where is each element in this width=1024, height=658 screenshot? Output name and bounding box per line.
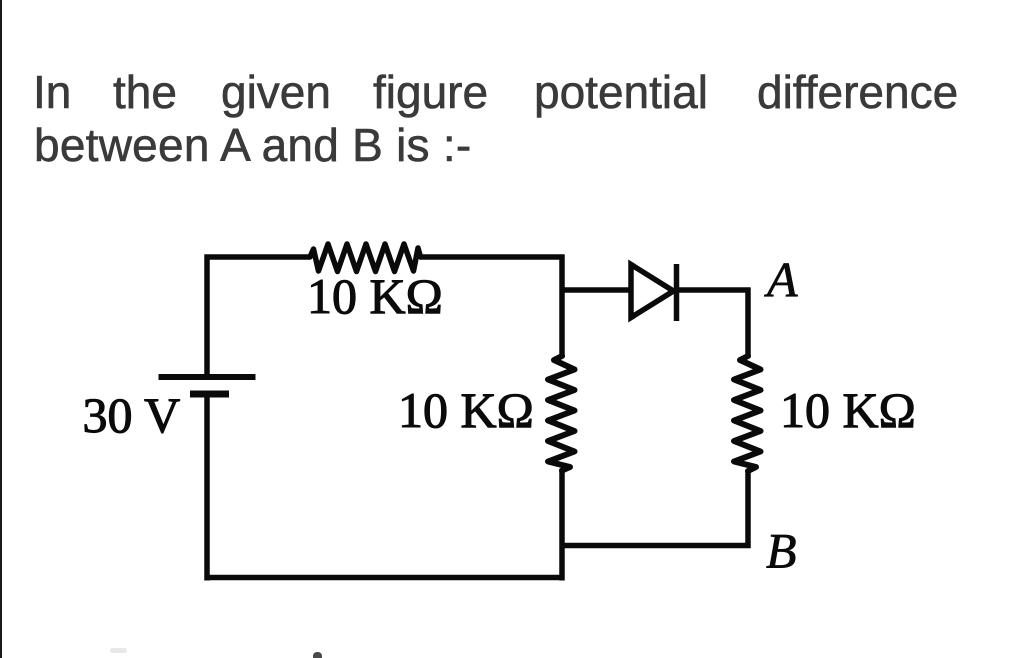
- svg-text:30 V: 30 V: [83, 387, 181, 443]
- svg-text:10 KΩ: 10 KΩ: [307, 268, 443, 324]
- middle vertical wire upper segment: [559, 255, 565, 358]
- middle vertical wire lower segment: [559, 470, 565, 581]
- top wire right segment: [420, 254, 565, 260]
- top wire left segment: [205, 254, 311, 260]
- right vertical wire lower segment: [745, 471, 751, 548]
- question text line 1: [33, 69, 71, 115]
- svg-text:B: B: [766, 523, 797, 579]
- resistor R1 10 KOhm (horizontal zigzag): [310, 244, 421, 272]
- left wire upper segment: [204, 255, 210, 378]
- left wire lower segment: [204, 394, 210, 581]
- node B branch wire: [562, 543, 751, 549]
- svg-text:10 KΩ: 10 KΩ: [398, 382, 534, 438]
- diode branch wire (cathode side): [677, 287, 751, 293]
- diode D1 triangle: [631, 265, 674, 318]
- question text line 2: [34, 122, 471, 168]
- battery BT1 short plate (-): [190, 391, 229, 398]
- right vertical wire upper segment: [745, 288, 751, 357]
- resistor R2 10 KOhm (vertical zigzag): [548, 356, 575, 471]
- left page border: [0, 0, 2, 658]
- battery BT1 long plate (+): [159, 374, 256, 380]
- cut-off mark at bottom (next line): [313, 652, 322, 658]
- resistor R3 10 KOhm (vertical zigzag): [734, 356, 761, 471]
- svg-text:10 KΩ: 10 KΩ: [780, 382, 916, 438]
- diode branch wire (anode side): [562, 287, 631, 293]
- svg-text:A: A: [764, 252, 798, 308]
- faint smudge bottom left: [110, 648, 127, 653]
- bottom wire: [205, 575, 565, 581]
- diode D1 cathode bar: [674, 264, 680, 321]
